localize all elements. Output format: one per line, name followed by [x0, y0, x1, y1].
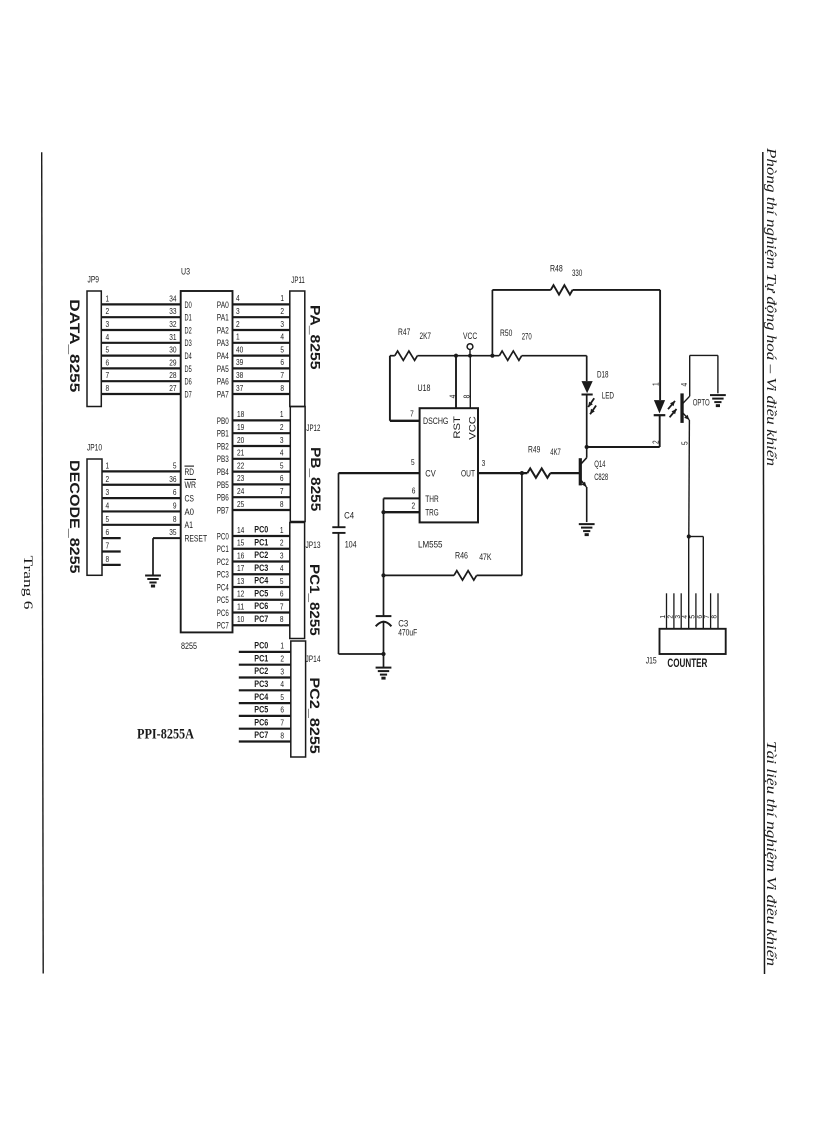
- svg-text:16: 16: [237, 550, 245, 560]
- VCC terminal symbol: [463, 331, 478, 356]
- svg-text:7: 7: [704, 615, 711, 619]
- wire R48 to opto pin1: [659, 290, 661, 400]
- svg-text:12: 12: [237, 589, 245, 599]
- wire U3 pin 3 (PA1) to JP11 pin 2: [233, 306, 290, 317]
- svg-text:10: 10: [237, 614, 245, 624]
- label DECODE_8255: [67, 460, 83, 574]
- U3 pin label WR: [185, 479, 197, 491]
- svg-text:3: 3: [482, 458, 486, 468]
- wire C3 to ground node: [383, 621, 385, 668]
- svg-text:470uF: 470uF: [398, 628, 417, 638]
- U18 pin label OUT: [461, 469, 475, 480]
- svg-text:3: 3: [675, 615, 682, 619]
- U18 pin number 8 (rotated): [462, 394, 472, 398]
- svg-text:PA_8255: PA_8255: [308, 305, 324, 370]
- svg-text:PC4: PC4: [217, 582, 229, 593]
- connector JP9: [87, 275, 101, 407]
- U3 pin label PC2: [217, 557, 229, 568]
- U3 pin label PB6: [217, 493, 229, 504]
- svg-text:8: 8: [280, 614, 284, 624]
- svg-text:14: 14: [237, 525, 245, 535]
- svg-text:4: 4: [280, 332, 284, 342]
- svg-text:D6: D6: [185, 377, 192, 388]
- J15 pin 7 stub: [704, 593, 711, 629]
- wire THR-TRG-C3 vertical: [383, 498, 385, 616]
- svg-text:DATA_8255: DATA_8255: [67, 299, 83, 392]
- svg-text:39: 39: [236, 357, 244, 367]
- wire U3 pin 17 (PC3) to JP13 pin 4, net PC3: [233, 563, 290, 574]
- capacitor C3 470uF (polarized): [376, 616, 418, 637]
- U3 pin label PC0: [217, 531, 229, 542]
- U3 pin label D2: [185, 325, 192, 336]
- svg-text:PB6: PB6: [217, 493, 229, 504]
- wire U3 pin 20 (PB2) to JP12 pin 3: [233, 435, 291, 446]
- node OUT junction: [520, 471, 524, 475]
- svg-text:8: 8: [280, 499, 284, 509]
- svg-text:3: 3: [280, 666, 284, 676]
- svg-text:38: 38: [236, 370, 244, 380]
- svg-text:JP13: JP13: [306, 540, 321, 551]
- wire JP9 pin 4 to U3 pin 31 (D3): [101, 332, 180, 343]
- svg-text:DECODE_8255: DECODE_8255: [67, 460, 83, 574]
- svg-text:CV: CV: [425, 469, 436, 480]
- wire TRG (pin2): [384, 511, 420, 513]
- U3 pin label PC5: [217, 595, 229, 606]
- U18 pin label DSCHG: [423, 416, 448, 427]
- opto pin number 4 (rotated): [679, 383, 689, 387]
- svg-text:2: 2: [280, 538, 284, 548]
- svg-text:1: 1: [280, 641, 284, 651]
- svg-text:PC7: PC7: [217, 621, 229, 632]
- svg-text:6: 6: [412, 486, 416, 496]
- J15 pin 6 number: [697, 615, 704, 619]
- U3 pin label D6: [185, 377, 192, 388]
- page number Trang 6: [21, 556, 35, 610]
- svg-text:5: 5: [106, 514, 110, 524]
- svg-text:PB2: PB2: [217, 441, 229, 452]
- svg-text:PB0: PB0: [217, 416, 229, 427]
- svg-text:8: 8: [106, 383, 110, 393]
- U3 pin label PB3: [217, 454, 229, 465]
- svg-text:30: 30: [169, 345, 177, 355]
- wire U3 pin 14 (PC0) to JP13 pin 1, net PC0: [233, 525, 290, 536]
- ground (OPTO pin4): [710, 395, 726, 407]
- svg-text:PC7: PC7: [254, 614, 268, 624]
- svg-text:29: 29: [169, 357, 177, 367]
- transistor Q14 C828: [579, 447, 608, 522]
- svg-text:PC4: PC4: [254, 692, 268, 702]
- resistor R50 270: [499, 328, 531, 360]
- svg-text:6: 6: [173, 487, 177, 497]
- svg-text:PB3: PB3: [217, 454, 229, 465]
- capacitor C4 104: [332, 511, 356, 550]
- svg-text:Q14: Q14: [594, 459, 605, 469]
- opto pin number 5 (rotated): [680, 441, 690, 445]
- svg-text:PB1: PB1: [217, 429, 229, 440]
- wire R46 riser to OUT: [521, 473, 523, 575]
- svg-text:4: 4: [280, 448, 284, 458]
- svg-text:4: 4: [106, 500, 110, 510]
- svg-text:JP14: JP14: [306, 654, 321, 665]
- svg-text:1: 1: [660, 615, 667, 619]
- svg-text:7: 7: [410, 409, 414, 419]
- svg-text:PC0: PC0: [254, 525, 268, 535]
- U3 pin label RD: [185, 466, 195, 478]
- connector JP14: [291, 641, 321, 757]
- svg-text:PA3: PA3: [217, 338, 229, 349]
- svg-text:4: 4: [280, 679, 284, 689]
- resistor R47 2K7: [395, 327, 431, 361]
- node VCC junction: [468, 354, 472, 358]
- wire U3 pin 39 (PA5) to JP11 pin 6: [233, 357, 290, 368]
- label PB_8255: [308, 447, 324, 511]
- svg-text:D18: D18: [597, 370, 609, 380]
- wire net PC0 to JP14 pin 1: [239, 641, 291, 652]
- svg-text:6: 6: [280, 705, 284, 715]
- optocoupler OPTO LED side: [654, 400, 677, 447]
- svg-text:JP9: JP9: [88, 275, 100, 286]
- label PC1_8255: [307, 564, 323, 636]
- svg-text:PC6: PC6: [217, 608, 229, 619]
- svg-text:3: 3: [280, 319, 284, 329]
- U3 pin label PA6: [217, 377, 229, 388]
- svg-text:27: 27: [169, 383, 177, 393]
- svg-text:2: 2: [106, 474, 110, 484]
- svg-text:330: 330: [572, 268, 582, 278]
- J15 pin 3 stub: [675, 593, 682, 629]
- svg-text:6: 6: [106, 527, 110, 537]
- label DATA_8255: [67, 299, 83, 392]
- svg-text:24: 24: [237, 486, 245, 496]
- svg-text:104: 104: [345, 540, 357, 550]
- svg-text:PC5: PC5: [254, 705, 268, 715]
- U3 pin label CS: [185, 494, 195, 505]
- svg-text:5: 5: [280, 692, 284, 702]
- svg-text:JP12: JP12: [306, 423, 320, 434]
- U3 pin label D4: [185, 351, 192, 362]
- wire OUT (pin3): [478, 472, 527, 474]
- U18 pin label CV: [425, 469, 436, 480]
- U18 pin label RST (rotated): [452, 416, 463, 439]
- connector JP12: [290, 407, 320, 522]
- svg-text:D1: D1: [185, 313, 192, 324]
- svg-text:PC3: PC3: [254, 679, 268, 689]
- svg-text:7: 7: [280, 718, 284, 728]
- svg-text:THR: THR: [425, 494, 438, 505]
- optocoupler OPTO transistor side: [681, 355, 718, 536]
- svg-text:PA6: PA6: [217, 377, 229, 388]
- svg-text:R46: R46: [455, 550, 468, 560]
- svg-text:8255: 8255: [181, 641, 197, 651]
- svg-text:34: 34: [169, 293, 177, 303]
- svg-text:CS: CS: [185, 494, 195, 505]
- svg-text:7: 7: [280, 486, 284, 496]
- U3 pin label PC7: [217, 621, 229, 632]
- svg-text:PC6: PC6: [254, 717, 268, 727]
- svg-text:JP10: JP10: [87, 443, 102, 454]
- svg-text:PC1_8255: PC1_8255: [307, 564, 323, 636]
- U3 pin label PA3: [217, 338, 229, 349]
- svg-text:R50: R50: [500, 328, 512, 338]
- svg-text:PA5: PA5: [217, 364, 229, 375]
- svg-text:R47: R47: [398, 327, 410, 337]
- wire U3 pin 19 (PB1) to JP12 pin 2: [233, 422, 291, 433]
- wire R50 to D18: [522, 355, 587, 357]
- svg-text:7: 7: [106, 541, 110, 551]
- U3 pin label PB4: [217, 467, 229, 478]
- svg-text:2: 2: [106, 306, 110, 316]
- svg-text:A1: A1: [185, 520, 194, 531]
- wire JP9 pin 5 to U3 pin 30 (D4): [101, 345, 180, 356]
- svg-text:TRG: TRG: [425, 508, 438, 519]
- wire JP9 pin 7 to U3 pin 28 (D6): [101, 370, 180, 381]
- U18 pin number 5: [411, 457, 415, 467]
- svg-text:31: 31: [169, 332, 177, 342]
- J15 pin 4 number: [682, 615, 689, 619]
- svg-text:VCC: VCC: [467, 416, 478, 440]
- svg-text:U3: U3: [181, 267, 190, 277]
- wire net PC7 to JP14 pin 8: [239, 730, 291, 741]
- wire U3 pin 22 (PB4) to JP12 pin 5: [233, 460, 291, 471]
- svg-text:PPI-8255A: PPI-8255A: [137, 727, 194, 743]
- svg-text:PA0: PA0: [217, 300, 229, 311]
- wire JP9 pin 2 to U3 pin 33 (D1): [101, 306, 180, 317]
- svg-text:47K: 47K: [479, 552, 491, 562]
- svg-text:3: 3: [280, 550, 284, 560]
- U3 pin label D1: [185, 313, 192, 324]
- svg-text:4: 4: [236, 293, 240, 303]
- connector JP11: [290, 275, 305, 407]
- svg-text:8: 8: [280, 730, 284, 740]
- wire U3 pin 10 (PC7) to JP13 pin 8, net PC7: [233, 614, 290, 625]
- svg-text:4: 4: [679, 383, 689, 387]
- wire U3 pin 12 (PC5) to JP13 pin 6, net PC5: [233, 588, 290, 599]
- svg-text:5: 5: [173, 460, 177, 470]
- connector J15 COUNTER: [646, 629, 726, 670]
- svg-text:4: 4: [106, 332, 110, 342]
- svg-text:4: 4: [682, 615, 689, 619]
- svg-text:R48: R48: [550, 264, 563, 274]
- svg-text:8: 8: [173, 514, 177, 524]
- U18 pin label TRG: [425, 508, 438, 519]
- svg-text:C828: C828: [594, 472, 608, 482]
- wire U3 pin 37 (PA7) to JP11 pin 8: [233, 383, 290, 394]
- stub wire JP10 pin 8: [102, 554, 121, 565]
- wire U3 pin 23 (PB5) to JP12 pin 6: [233, 473, 291, 484]
- svg-text:5: 5: [280, 344, 284, 354]
- svg-text:23: 23: [237, 473, 245, 483]
- svg-text:Phòng thí nghiệm Tự động hoá –: Phòng thí nghiệm Tự động hoá – Vi điều k…: [764, 147, 779, 467]
- opto pin number 2 (rotated): [651, 440, 661, 444]
- svg-text:3: 3: [106, 319, 110, 329]
- wire pin8 VCC drop: [469, 356, 471, 409]
- svg-text:PB4: PB4: [217, 467, 229, 478]
- IC U18 LM555 body: [418, 383, 479, 551]
- diode D18 LED: [582, 370, 615, 415]
- wire U3 pin 1 (PA3) to JP11 pin 4: [233, 332, 290, 343]
- stub wire JP10 pin 6: [102, 527, 121, 538]
- svg-text:1: 1: [106, 460, 110, 470]
- svg-text:Tài liệu thí nghiệm Vi điều kh: Tài liệu thí nghiệm Vi điều khiển: [764, 741, 779, 966]
- wire THR (pin6): [384, 497, 420, 499]
- U3 pin label PC4: [217, 582, 229, 593]
- svg-text:PC3: PC3: [254, 563, 268, 573]
- svg-text:36: 36: [169, 474, 177, 484]
- U3 pin label PB0: [217, 416, 229, 427]
- svg-text:22: 22: [237, 460, 245, 470]
- svg-text:PC0: PC0: [217, 531, 229, 542]
- svg-text:5: 5: [680, 441, 690, 445]
- svg-text:PC4: PC4: [254, 576, 268, 586]
- U3 pin label PA7: [217, 389, 229, 400]
- svg-text:1: 1: [106, 293, 110, 303]
- wire JP9 pin 1 to U3 pin 34 (D0): [101, 293, 180, 304]
- wire U3 pin 4 (PA0) to JP11 pin 1: [233, 293, 290, 304]
- U3 pin label PC3: [217, 570, 229, 581]
- svg-text:6: 6: [697, 615, 704, 619]
- wire net PC2 to JP14 pin 3: [239, 666, 291, 677]
- svg-text:4K7: 4K7: [550, 447, 561, 457]
- svg-text:2: 2: [236, 319, 240, 329]
- svg-text:Trang 6: Trang 6: [21, 556, 35, 610]
- U3 pin label PA2: [217, 325, 229, 336]
- svg-text:PB_8255: PB_8255: [308, 447, 324, 511]
- U18 pin number 6: [412, 486, 416, 496]
- svg-text:PC7: PC7: [254, 730, 268, 740]
- svg-text:D5: D5: [185, 364, 192, 375]
- ground (C3): [376, 668, 392, 680]
- svg-text:PB5: PB5: [217, 480, 229, 491]
- svg-text:JP11: JP11: [291, 275, 305, 286]
- title PPI-8255A: [137, 727, 194, 743]
- svg-text:PA4: PA4: [217, 351, 229, 362]
- ground (Q14 emitter): [579, 524, 595, 536]
- wire JP10 pin 4 to U3 pin 9 (A0): [102, 500, 181, 511]
- wire net PC1 to JP14 pin 2: [239, 653, 291, 664]
- U18 pin number 3: [482, 458, 486, 468]
- U3 pin label PA0: [217, 300, 229, 311]
- svg-text:DSCHG: DSCHG: [423, 416, 448, 427]
- svg-text:PB7: PB7: [217, 505, 229, 516]
- svg-text:LM555: LM555: [418, 540, 443, 551]
- svg-text:D2: D2: [185, 325, 192, 336]
- wire U3 pin 38 (PA6) to JP11 pin 7: [233, 370, 290, 381]
- wire JP9 pin 8 to U3 pin 27 (D7): [101, 383, 180, 394]
- svg-text:PC3: PC3: [217, 570, 229, 581]
- svg-text:6: 6: [280, 473, 284, 483]
- svg-text:1: 1: [280, 525, 284, 535]
- svg-text:17: 17: [237, 563, 245, 573]
- U18 pin number 2: [411, 500, 415, 510]
- svg-text:33: 33: [169, 306, 177, 316]
- U3 pin label PC6: [217, 608, 229, 619]
- svg-text:15: 15: [237, 538, 245, 548]
- svg-text:6: 6: [280, 357, 284, 367]
- wire U3 pin 11 (PC6) to JP13 pin 7, net PC6: [233, 601, 290, 612]
- wire U3 pin 24 (PB6) to JP12 pin 7: [233, 486, 291, 497]
- wire JP9 pin 3 to U3 pin 32 (D2): [101, 319, 180, 330]
- node R48 riser junction: [490, 354, 494, 358]
- svg-text:7: 7: [280, 601, 284, 611]
- svg-text:PC1: PC1: [254, 653, 268, 663]
- svg-text:5: 5: [690, 615, 697, 619]
- wire U3 pin 2 (PA2) to JP11 pin 3: [233, 319, 290, 330]
- svg-text:RESET: RESET: [185, 534, 208, 545]
- svg-text:8: 8: [106, 554, 110, 564]
- opto pin number 1 (rotated): [650, 382, 660, 386]
- U3 pin label PB1: [217, 429, 229, 440]
- svg-text:5: 5: [280, 576, 284, 586]
- U3 pin label PB5: [217, 480, 229, 491]
- U18 pin number 4 (rotated): [447, 394, 457, 398]
- U3 pin label D0: [185, 300, 192, 311]
- svg-text:8: 8: [280, 383, 284, 393]
- right margin rule: [763, 152, 765, 974]
- wire U3 pin 40 (PA4) to JP11 pin 5: [233, 344, 290, 355]
- wire JP10 pin 2 to U3 pin 36 (WR): [102, 474, 181, 485]
- svg-text:13: 13: [237, 576, 245, 586]
- U18 pin number 7: [410, 409, 414, 419]
- svg-text:270: 270: [522, 332, 532, 342]
- svg-text:2: 2: [280, 422, 284, 432]
- U3 pin label PB7: [217, 505, 229, 516]
- svg-text:PC2: PC2: [217, 557, 229, 568]
- U3 pin label D5: [185, 364, 192, 375]
- svg-text:6: 6: [106, 357, 110, 367]
- node TRG junction: [381, 510, 385, 514]
- J15 pin 1 stub: [660, 593, 667, 629]
- svg-text:6: 6: [280, 589, 284, 599]
- svg-text:PA7: PA7: [217, 389, 229, 400]
- node RST pin4 junction: [454, 354, 458, 358]
- svg-text:9: 9: [173, 500, 177, 510]
- svg-text:COUNTER: COUNTER: [667, 656, 707, 670]
- stub wire JP10 pin 7: [102, 541, 121, 552]
- connector JP13: [290, 523, 321, 639]
- wire net PC6 to JP14 pin 7: [239, 717, 291, 728]
- J15 pin 2 stub: [668, 593, 675, 629]
- svg-text:VCC: VCC: [463, 331, 478, 341]
- svg-text:A0: A0: [185, 507, 195, 518]
- U18 pin label THR: [425, 494, 438, 505]
- svg-text:8: 8: [712, 615, 719, 619]
- svg-text:2: 2: [411, 500, 415, 510]
- wire U3 pin 18 (PB0) to JP12 pin 1: [233, 409, 291, 420]
- svg-text:32: 32: [169, 319, 177, 329]
- svg-text:7: 7: [280, 370, 284, 380]
- U3 pin label PA5: [217, 364, 229, 375]
- svg-text:PC2_8255: PC2_8255: [307, 677, 323, 754]
- wire opto emitter to J15 pin4: [688, 537, 690, 629]
- svg-text:40: 40: [236, 344, 244, 354]
- svg-text:5: 5: [106, 345, 110, 355]
- wire net PC3 to JP14 pin 4: [239, 679, 291, 690]
- svg-text:1: 1: [650, 382, 660, 386]
- U3 pin label PB2: [217, 441, 229, 452]
- wire D18 cathode to collector node: [586, 395, 588, 448]
- svg-text:PA2: PA2: [217, 325, 229, 336]
- svg-text:21: 21: [237, 448, 245, 458]
- svg-text:PC1: PC1: [254, 537, 268, 547]
- svg-text:1: 1: [280, 409, 284, 419]
- svg-text:3: 3: [236, 306, 240, 316]
- resistor R49 4K7: [527, 445, 579, 478]
- wire net PC5 to JP14 pin 6: [239, 705, 291, 716]
- wire JP10 pin 3 to U3 pin 6 (CS): [102, 487, 181, 498]
- wire CV (pin5): [339, 472, 420, 474]
- header text: Phong thi nghiem: [764, 147, 779, 467]
- wire R48 riser: [491, 290, 493, 356]
